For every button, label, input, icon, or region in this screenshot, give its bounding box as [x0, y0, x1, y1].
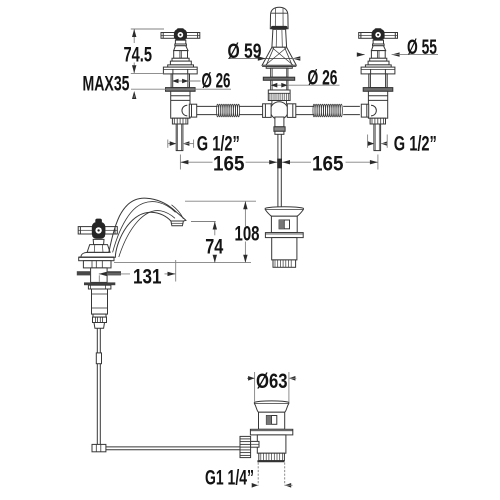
svg-text:Ø 55: Ø 55 — [407, 36, 437, 59]
svg-text:G 1/2”: G 1/2” — [394, 132, 437, 155]
svg-text:Ø 26: Ø 26 — [308, 67, 338, 90]
svg-text:165: 165 — [213, 153, 245, 176]
svg-text:Ø 26: Ø 26 — [202, 69, 231, 92]
svg-text:G1 1/4”: G1 1/4” — [205, 466, 254, 489]
svg-text:74: 74 — [205, 236, 223, 259]
svg-text:165: 165 — [312, 153, 344, 176]
svg-text:108: 108 — [235, 222, 260, 245]
svg-text:74.5: 74.5 — [124, 44, 153, 67]
svg-text:131: 131 — [133, 265, 162, 288]
svg-text:Ø 59: Ø 59 — [228, 40, 262, 63]
svg-text:MAX35: MAX35 — [83, 72, 130, 95]
svg-text:Ø63: Ø63 — [256, 370, 288, 393]
